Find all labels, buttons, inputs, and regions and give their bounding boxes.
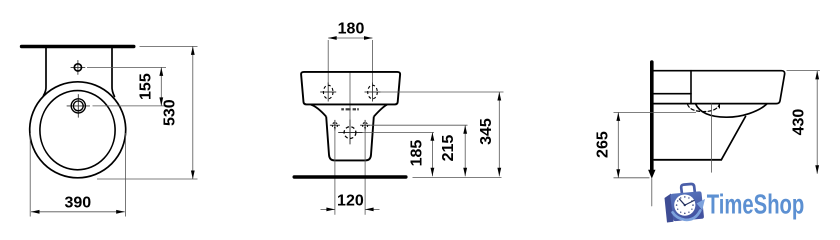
- wall line (top bar): [22, 45, 134, 48]
- dim 185/215/345 bottom extension line: [413, 177, 502, 179]
- dim 390 extension lines: [30, 133, 125, 217]
- bottom edge: [654, 159, 721, 161]
- bowl underside curve: [696, 104, 767, 117]
- left fixing hole crosshair: [320, 83, 336, 102]
- svg-text:430: 430: [790, 109, 807, 136]
- dim 345 line: [498, 92, 500, 176]
- wall line end arrow: [648, 170, 655, 179]
- right side hole extensions (to 215 dim and 120 dim): [365, 125, 467, 215]
- inner bowl ellipse: [40, 91, 115, 170]
- hidden drain (dashed): [688, 104, 720, 111]
- front slant line: [721, 117, 745, 160]
- clock hands: [679, 199, 684, 205]
- right fixing hole crosshair: [365, 83, 381, 102]
- dim 155 line: [160, 67, 162, 106]
- svg-text:345: 345: [478, 118, 495, 145]
- dim 120 line left part: [321, 208, 335, 210]
- tank / upper box outline: [301, 72, 400, 105]
- dim 215 line: [464, 125, 466, 176]
- right fixing hole (dashed slot): [368, 85, 378, 99]
- drain centerline vertical: [711, 104, 713, 173]
- bag back flap: [665, 194, 674, 223]
- right side hole crosshair: [360, 120, 370, 131]
- dim 530 line: [192, 46, 194, 179]
- dim 180 extension lines: [328, 40, 372, 84]
- left side wall of body: [44, 48, 47, 96]
- dim 185 line: [431, 132, 433, 176]
- clock face: [674, 195, 695, 216]
- faucet hole: [74, 64, 81, 71]
- left side hole extension to 120 dim: [334, 131, 336, 215]
- svg-text:215: 215: [440, 135, 457, 162]
- bag body: [670, 191, 704, 221]
- dim 430 line: [816, 71, 818, 174]
- svg-text:390: 390: [64, 195, 91, 212]
- body centerline: [349, 72, 351, 145]
- left shoulder curve: [311, 105, 326, 117]
- drain (dashed circle): [344, 127, 356, 139]
- wall extension thin line below: [651, 179, 653, 206]
- back mid line: [653, 93, 691, 95]
- left side hole (dashed): [332, 123, 337, 128]
- left side hole crosshair: [330, 120, 340, 131]
- svg-text:155: 155: [137, 73, 154, 100]
- bag handle: [681, 184, 695, 193]
- svg-text:180: 180: [338, 21, 365, 38]
- outer bowl circle: [30, 82, 126, 178]
- drain hole inner circle: [73, 101, 83, 111]
- dim 155 extension lines: [87, 67, 166, 106]
- back divider vertical: [690, 71, 692, 104]
- svg-text:265: 265: [595, 131, 612, 158]
- wall line (vertical bar): [650, 62, 654, 171]
- dim 180 line: [328, 37, 372, 39]
- svg-text:120: 120: [337, 192, 364, 209]
- dim 430 extension line: [787, 70, 820, 72]
- LAUFEN small brand text (tiny dashes): [341, 108, 359, 110]
- drain hole centerlines: [67, 95, 90, 118]
- dim 265 line: [617, 112, 619, 177]
- faucet hole centerlines: [71, 60, 85, 74]
- drain extension to 185 dim: [363, 132, 434, 134]
- dim 345 extension line (from fixing holes): [381, 91, 504, 93]
- rim outline (top edge, front edge, rim bottom): [653, 71, 785, 104]
- dim 265 extension lines: [614, 112, 697, 177]
- svg-text:185: 185: [408, 140, 425, 167]
- drain hole outer circle: [71, 99, 85, 113]
- lower body trapezoid: [326, 117, 374, 161]
- right side hole (dashed): [363, 123, 368, 128]
- dim 390 line: [31, 211, 125, 213]
- dim 120 line right part: [365, 208, 379, 210]
- svg-text:530: 530: [162, 99, 179, 126]
- swoosh arrow: [673, 211, 701, 220]
- right shoulder curve: [374, 105, 387, 117]
- clock ticks: [676, 196, 694, 214]
- floor line (bottom bar): [294, 175, 406, 178]
- left fixing hole (dashed slot): [323, 85, 333, 99]
- right side wall of body: [112, 48, 115, 97]
- dim 530 extension lines: [97, 46, 198, 179]
- drain crosshair: [338, 120, 362, 145]
- svg-text:TimeShop: TimeShop: [707, 189, 805, 220]
